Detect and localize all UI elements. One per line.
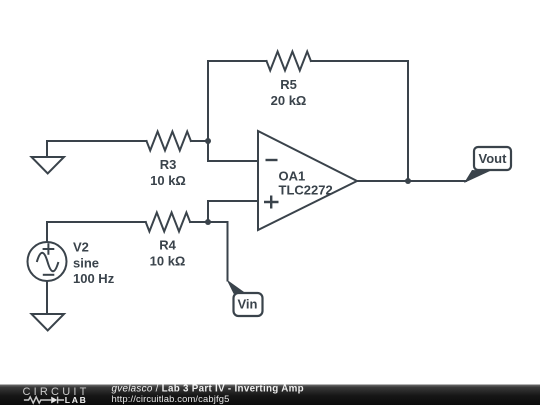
ground (left, near R3): [32, 157, 65, 174]
svg-text:10 kΩ: 10 kΩ: [150, 254, 186, 269]
CircuitLab logo diode: [51, 397, 57, 404]
svg-text:OA1: OA1: [279, 169, 306, 184]
svg-text:http://circuitlab.com/cabjfg5: http://circuitlab.com/cabjfg5: [112, 393, 230, 404]
svg-text:20 kΩ: 20 kΩ: [271, 93, 307, 108]
svg-text:TLC2272: TLC2272: [279, 183, 333, 198]
CircuitLab logo schematic squiggle: [24, 397, 64, 404]
resistor R3: [147, 132, 191, 151]
wire V2 top lead to R4: [47, 222, 146, 242]
wire feedback left vertical and top lead: [208, 61, 267, 141]
wire op-amp output: [357, 180, 466, 182]
junction node R4/Vin: [205, 219, 211, 225]
wire R3 right lead to node: [191, 140, 208, 142]
svg-text:R3: R3: [160, 157, 177, 172]
resistor R5: [267, 52, 311, 71]
wire inverting input: [208, 141, 258, 161]
junction node R3/feedback: [205, 138, 211, 144]
junction node output/feedback: [405, 178, 411, 184]
svg-text:V2: V2: [73, 240, 89, 255]
resistor R4: [146, 213, 190, 232]
svg-text:100 Hz: 100 Hz: [73, 271, 115, 286]
svg-text:R4: R4: [159, 238, 176, 253]
wire feedback top right lead and right vertical: [311, 61, 408, 181]
wire R4 right lead through node to Vin drop: [190, 222, 227, 281]
wire non-inverting input: [208, 201, 258, 222]
op-amp OA1: [258, 131, 357, 230]
footer bar: [0, 385, 540, 405]
ground (below V2): [32, 314, 65, 331]
node Vin flag: [227, 280, 263, 317]
svg-text:Vin: Vin: [238, 297, 258, 312]
wire ground stub to R3 left lead: [47, 141, 147, 157]
wire V2 bottom to ground: [46, 282, 48, 315]
svg-text:Vout: Vout: [479, 151, 508, 166]
svg-text:10 kΩ: 10 kΩ: [150, 173, 186, 188]
svg-text:sine: sine: [73, 256, 99, 271]
node Vout flag: [464, 147, 511, 183]
voltage source V2: [28, 242, 67, 281]
svg-text:R5: R5: [280, 77, 297, 92]
svg-text:LAB: LAB: [65, 395, 88, 405]
